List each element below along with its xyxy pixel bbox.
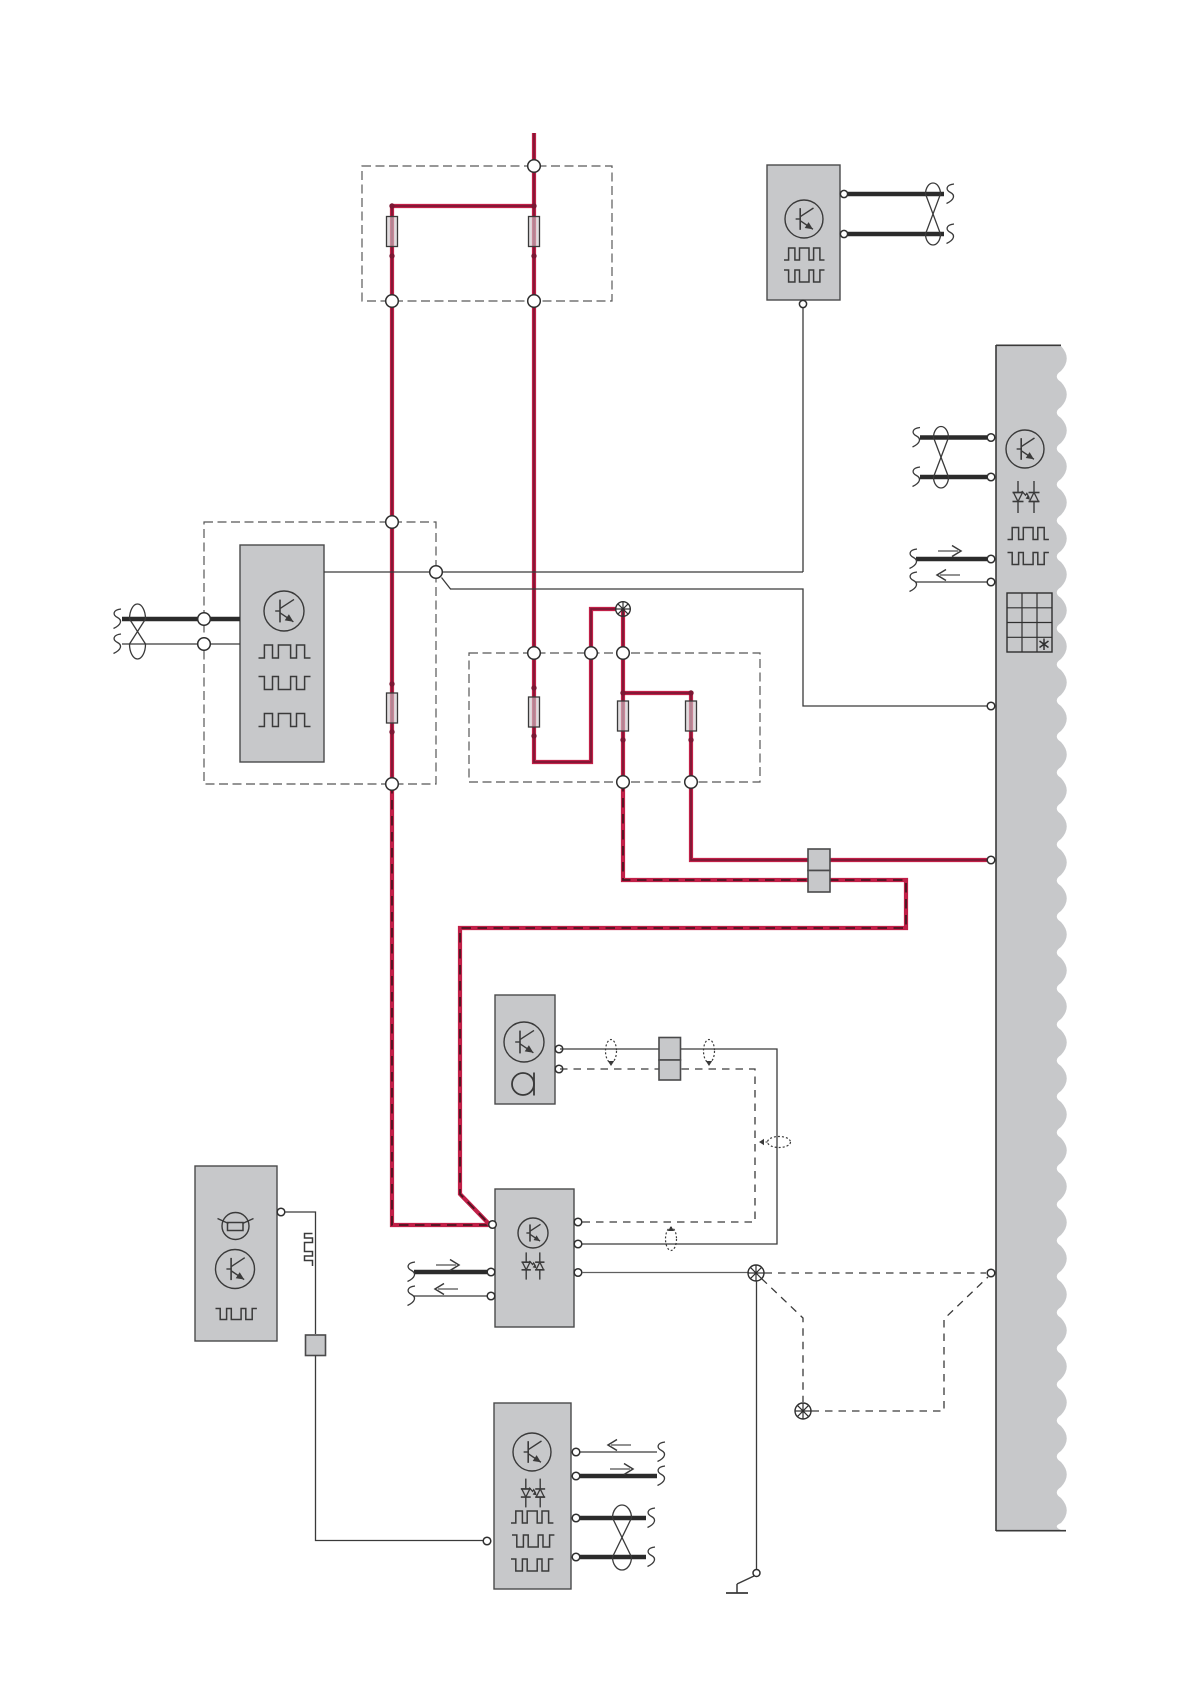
wire: unit D thin input [414,1295,487,1297]
fuse F2 dots [531,203,536,258]
break symbol [913,428,921,448]
connector terminal (436,572) [430,566,443,579]
break symbol [947,184,955,204]
break symbol [648,1508,656,1528]
in-line connector block (module C wires) [659,1038,681,1081]
connector terminal (623,653) [617,647,630,660]
splice junction S1 [616,602,631,617]
sensor symbol (module E) [218,1213,254,1240]
fuse F2 [529,217,540,247]
pulse symbol harness 2 [1008,553,1049,565]
break symbol [658,1466,666,1486]
pin [574,1240,582,1248]
wire: unit F out thick [576,1474,657,1478]
wire: unit F out thin [576,1451,657,1453]
splice junction S2 [748,1265,764,1281]
pin [489,1221,497,1229]
fuse holder box (dashed) [362,166,612,301]
arrow right [938,546,961,557]
wire: module A twisted pair upper [844,192,944,196]
wire: harness twisted pair upper [920,435,987,439]
wire: splice S2 to switch [756,1281,758,1569]
pulse symbol harness 1 [1008,528,1049,540]
ground switch lever [737,1576,754,1584]
pulse signal symbol F1 [511,1511,553,1523]
harness bar (connector strip) [996,345,1067,1531]
asterisk mark [1040,639,1049,651]
arrow right [610,1464,633,1475]
fuse F3 (in left module box) [387,693,398,723]
pin [277,1208,285,1216]
pin [987,555,995,563]
wire: signal run to harness [450,589,989,706]
pin [987,434,995,442]
fuse F4 dots [531,685,536,738]
shield marker [704,1040,715,1067]
shield marker [606,1040,617,1067]
twisted pair symbol (module A) [926,183,941,245]
connector terminal (392,522) [386,516,399,529]
break symbol [658,1442,666,1462]
wire: unit F twisted upper [576,1516,646,1520]
transistor symbol in unit D [518,1218,548,1248]
pin [753,1570,760,1577]
break symbol [114,634,122,654]
connector terminal (204,619) [198,613,211,626]
pulse signal symbol A2 [784,270,824,282]
wire: unit D thick input [414,1270,487,1274]
wire: module B output to node [324,571,803,573]
pin [840,230,847,237]
pin [987,1269,995,1277]
fuse F5 dots [620,690,625,742]
module B boundary (dashed) [204,522,436,784]
fuse F6 dots [688,690,693,742]
wire: module E run to unit F [316,1356,484,1541]
connector terminal (392,301) [386,295,399,308]
wire: red link and right branch to harness [623,693,989,860]
wire: rx line [916,581,987,583]
connector terminal (534,166) [528,160,541,173]
wire: red feed (x=534) from top through fuse box to junction [534,133,616,762]
pin [799,300,806,307]
arrow left [937,570,960,581]
pin [572,1553,580,1561]
fuse F5 [618,701,629,731]
connector terminal (691,782) [685,776,698,789]
break symbol [913,467,921,487]
pin [572,1448,580,1456]
transistor symbol in module B [264,591,304,631]
pulse signal symbol A1 [784,248,824,260]
connector terminal (623,782) [617,776,630,789]
control unit D [495,1189,574,1327]
pin [572,1472,580,1480]
pin [574,1269,582,1277]
wire: module B twisted pair thick [122,617,240,621]
connector box (dashed) [469,653,760,782]
arrow left [608,1440,631,1451]
connector terminal (204,644) [198,638,211,651]
transistor symbol in module E [216,1250,255,1289]
wire: module A twisted pair lower [844,232,944,236]
pulse signal symbol B3 [259,714,311,727]
break symbol [910,572,918,592]
in-line connector square [306,1335,326,1356]
pin [572,1514,580,1522]
pin [987,856,995,864]
wire: red branch to left fuse [392,204,534,208]
wire: harness twisted pair lower [920,475,987,479]
pin [987,473,995,481]
connector grid symbol [1007,593,1052,652]
fuse F3 dots [389,681,394,734]
transistor symbol in unit F [513,1433,551,1471]
connector terminal (534,301) [528,295,541,308]
wire: striped run from fuse box 2 to control unit [460,782,906,1225]
control module A (top right) [767,165,840,300]
wire: module B twisted pair thin [122,643,240,645]
pin [555,1065,563,1073]
transistor symbol in module A [785,200,823,238]
connector terminal (392,784) [386,778,399,791]
wire: red left branch down (solid part) [390,206,394,784]
transistor symbol (harness) [1006,430,1044,468]
dual diode symbol in unit F [521,1479,545,1508]
pin [487,1292,495,1300]
wire: module C shield (dashed) [560,1069,755,1222]
fuse F1 dots [389,203,394,258]
wire: unit F twisted lower [576,1555,646,1559]
sensor module E [195,1166,277,1341]
wire: module C signal (solid loop) [560,1049,777,1244]
control unit F [494,1403,571,1589]
break symbol [648,1547,656,1567]
pin [574,1218,582,1226]
pin [555,1045,563,1053]
pulse signal symbol B2 [259,677,311,690]
wire: tx line [916,557,987,561]
pin [487,1268,495,1276]
pulse signal symbol E [216,1309,257,1320]
wire: red/black striped long left run [392,784,489,1225]
pin [987,702,995,710]
wire: module E output [285,1212,316,1334]
wire: dashed ground option A [765,1272,987,1274]
wire: node branch diagonal [442,578,451,590]
break symbol [408,1262,416,1282]
ground symbol [726,1584,748,1593]
wire: unit D to splice [582,1272,749,1274]
break symbol [910,549,918,569]
pulse signal symbol F2 [512,1535,554,1547]
break symbol [114,609,122,629]
break symbol [947,224,955,244]
arrow left [435,1284,458,1295]
module B control unit [240,545,324,762]
shield marker horizontal [759,1137,791,1148]
twisted pair symbol (unit F) [613,1505,632,1570]
pin [987,578,995,586]
in-line connector block [808,849,830,892]
wire: dashed ground option B [812,1277,989,1411]
splice junction S3 [795,1403,811,1419]
dual diode symbol in unit D [522,1252,545,1279]
connector terminal (591,653) [585,647,598,660]
wire: module A ground lead [802,304,804,572]
arrow right [436,1260,459,1271]
fuse F6 [686,701,697,731]
sensor module C [495,995,555,1104]
pin [840,190,847,197]
twisted pair symbol (harness) [934,427,949,489]
wire: dashed diagonal to splice S3 [762,1279,804,1403]
connector terminal (534,653) [528,647,541,660]
wire: red from splice down through fuse box 2 [621,609,625,782]
pulse signal symbol B1 [259,645,311,658]
antenna letter a symbol [512,1073,534,1096]
pulse signal symbol (vertical) [305,1234,313,1267]
fuse F4 [529,697,540,727]
fuse F1 [387,217,398,247]
break symbol [408,1286,416,1306]
shield marker [666,1226,677,1251]
twisted pair symbol (module B) [130,604,146,659]
dual diode symbol (harness) [1013,481,1040,513]
transistor symbol in module C [504,1022,544,1062]
pin [483,1537,491,1545]
pulse signal symbol F3 [511,1559,553,1571]
